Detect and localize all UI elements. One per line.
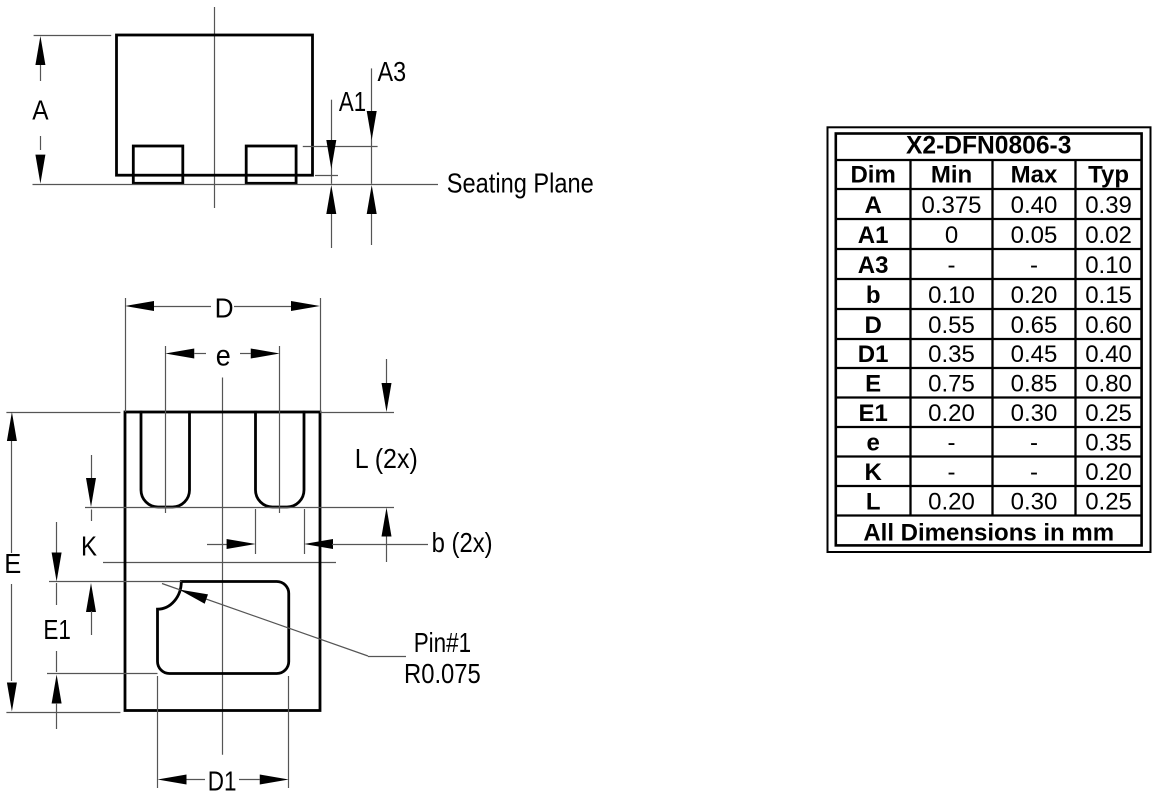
dimension D: dimension line with arrows <box>125 301 320 311</box>
table: row b <box>866 282 1132 309</box>
table: row D1 <box>858 341 1132 368</box>
dimension A1: label A1 <box>339 86 366 117</box>
svg-text:e: e <box>216 340 231 373</box>
body bottom extension line (A1 reference) <box>315 175 338 177</box>
svg-text:L (2x): L (2x) <box>355 443 418 474</box>
bottom view: vertical centerline <box>222 378 224 755</box>
dimension K: dimension line with arrows <box>86 455 96 635</box>
svg-text:0.35: 0.35 <box>928 341 975 368</box>
svg-text:0.40: 0.40 <box>1085 341 1132 368</box>
svg-text:b (2x): b (2x) <box>432 527 493 558</box>
svg-text:0.45: 0.45 <box>1011 341 1058 368</box>
dimension b: label b (2x) <box>432 527 493 558</box>
bottom view: package body outline <box>125 412 320 711</box>
svg-text:A: A <box>32 95 49 126</box>
table: row separator lines <box>836 160 1142 516</box>
bottom view: exposed pad with pin-1 chamfer notch <box>158 582 289 674</box>
svg-text:Min: Min <box>931 162 972 189</box>
svg-text:E: E <box>4 548 21 579</box>
table: title X2-DFN0806-3 <box>906 133 1071 160</box>
svg-text:0.40: 0.40 <box>1011 192 1058 219</box>
svg-text:0.10: 0.10 <box>928 282 975 309</box>
dimension D1: right extension line <box>288 676 290 788</box>
table: row A1 <box>858 222 1132 249</box>
svg-text:D: D <box>864 312 881 339</box>
dimension b: left extension line (slot edge) <box>255 509 257 554</box>
table: row K <box>864 459 1131 486</box>
dimension D1: label D1 <box>208 766 237 797</box>
svg-text:0.375: 0.375 <box>921 192 981 219</box>
svg-text:A: A <box>864 192 881 219</box>
svg-text:D: D <box>215 292 234 323</box>
svg-text:0.20: 0.20 <box>1085 459 1132 486</box>
svg-text:Typ: Typ <box>1088 162 1129 189</box>
svg-text:D1: D1 <box>858 341 889 368</box>
side view: vertical centerline <box>214 7 216 208</box>
dimension D1: dimension line with arrows <box>158 775 289 785</box>
svg-text:0.80: 0.80 <box>1085 371 1132 398</box>
bottom view: horizontal centerline <box>103 562 336 564</box>
table: footer All Dimensions in mm <box>863 519 1114 546</box>
svg-text:K: K <box>864 459 882 486</box>
svg-text:E1: E1 <box>858 400 887 427</box>
svg-text:A3: A3 <box>378 56 407 87</box>
svg-text:0.15: 0.15 <box>1085 282 1132 309</box>
exposed pad top extension line <box>49 581 182 583</box>
svg-text:0.20: 0.20 <box>1011 282 1058 309</box>
svg-text:Max: Max <box>1011 162 1058 189</box>
dimension D: left extension line <box>125 298 127 412</box>
side view: left terminal pad <box>133 146 183 183</box>
dimension e: right extension line (slot 2 centerline) <box>279 346 281 513</box>
svg-text:0.30: 0.30 <box>1011 400 1058 427</box>
svg-text:0.25: 0.25 <box>1085 400 1132 427</box>
svg-text:0.05: 0.05 <box>1011 222 1058 249</box>
svg-text:0.25: 0.25 <box>1085 489 1132 516</box>
svg-text:e: e <box>866 430 879 457</box>
body top extension line right (for L) <box>320 412 394 414</box>
dimension A: top extension line <box>34 35 112 37</box>
body bottom extension line (for E) <box>6 712 120 714</box>
svg-text:0.30: 0.30 <box>1011 489 1058 516</box>
table: column separator lines <box>911 160 1076 516</box>
svg-text:0.85: 0.85 <box>1011 371 1058 398</box>
dimension L: label L (2x) <box>355 443 418 474</box>
svg-text:All Dimensions in mm: All Dimensions in mm <box>863 519 1114 546</box>
svg-text:D1: D1 <box>208 766 237 797</box>
side view: right terminal pad <box>246 146 296 183</box>
dimension E: dimension line with arrows <box>7 412 17 712</box>
side view: package body outline <box>117 35 313 175</box>
label R0.075 <box>404 658 481 689</box>
dimension A3: label A3 <box>378 56 407 87</box>
svg-text:0.75: 0.75 <box>928 371 975 398</box>
dimension A: dimension line with arrows <box>35 36 45 184</box>
svg-text:R0.075: R0.075 <box>404 658 481 689</box>
dimension E1: label E1 <box>43 614 71 645</box>
svg-text:0.60: 0.60 <box>1085 312 1132 339</box>
table: row E <box>865 371 1132 398</box>
table: header row Dim Min Max Typ <box>850 162 1129 189</box>
svg-text:L: L <box>866 489 881 516</box>
dimension A3: dimension line with arrows <box>367 68 377 245</box>
svg-text:A1: A1 <box>858 222 889 249</box>
table: row A3 <box>858 252 1132 279</box>
label Pin#1 <box>414 627 471 658</box>
svg-text:X2-DFN0806-3: X2-DFN0806-3 <box>906 133 1071 160</box>
label Seating Plane <box>447 167 594 198</box>
dimension b: right extension line (slot edge) <box>304 509 306 554</box>
pin 1 leader arrowhead <box>179 590 208 604</box>
svg-text:0.39: 0.39 <box>1085 192 1132 219</box>
dimension e: left extension line (slot 1 centerline) <box>165 346 167 513</box>
seating plane line <box>33 184 439 186</box>
svg-text:-: - <box>1030 459 1038 486</box>
svg-text:0.20: 0.20 <box>928 489 975 516</box>
svg-text:Seating Plane: Seating Plane <box>447 167 594 198</box>
svg-text:0: 0 <box>945 222 958 249</box>
svg-text:0.35: 0.35 <box>1085 430 1132 457</box>
pad top extension line (A3 reference) <box>303 146 378 148</box>
body top extension line left (for E) <box>6 412 120 414</box>
dimension A1: dimension line with arrows <box>326 100 336 248</box>
svg-text:Dim: Dim <box>850 162 895 189</box>
svg-text:K: K <box>81 531 98 562</box>
table: row e <box>866 430 1131 457</box>
svg-text:A3: A3 <box>858 252 889 279</box>
svg-text:-: - <box>948 252 956 279</box>
dimension D: right extension line <box>320 298 322 412</box>
dimension E: label E <box>4 548 21 579</box>
svg-text:E1: E1 <box>43 614 71 645</box>
svg-text:0.65: 0.65 <box>1011 312 1058 339</box>
table: row L <box>866 489 1132 516</box>
terminal end extension line (slot bottoms) <box>85 507 394 509</box>
svg-text:-: - <box>948 430 956 457</box>
dimension K: label K <box>81 531 98 562</box>
table: row D <box>864 312 1131 339</box>
exposed pad bottom extension line <box>47 673 158 675</box>
dimension A: label A <box>32 95 49 126</box>
dimension L: dimension line with arrows <box>382 359 392 562</box>
svg-text:0.55: 0.55 <box>928 312 975 339</box>
svg-text:Pin#1: Pin#1 <box>414 627 471 658</box>
svg-text:0.20: 0.20 <box>928 400 975 427</box>
table: outer border frame <box>828 127 1151 552</box>
svg-text:b: b <box>866 282 881 309</box>
pin 1 leader line <box>162 584 406 657</box>
dimension D: label D <box>215 292 234 323</box>
svg-text:-: - <box>948 459 956 486</box>
svg-text:E: E <box>865 371 881 398</box>
table: row A <box>864 192 1131 219</box>
dimension b: dimension line with arrows <box>207 539 428 549</box>
table: inner border frame <box>836 134 1142 546</box>
svg-text:0.10: 0.10 <box>1085 252 1132 279</box>
dimension E1: dimension line with arrows <box>52 522 62 729</box>
svg-text:A1: A1 <box>339 86 366 117</box>
dimension e: dimension line with arrows <box>165 349 280 359</box>
bottom view: left terminal slot (pin 1) <box>141 411 190 507</box>
dimension D1: left extension line <box>157 676 159 788</box>
svg-text:0.02: 0.02 <box>1085 222 1132 249</box>
dimension e: label e <box>216 340 231 373</box>
bottom view: right terminal slot (pin 2) <box>256 411 305 507</box>
svg-text:-: - <box>1030 430 1038 457</box>
table: row E1 <box>858 400 1131 427</box>
svg-text:-: - <box>1030 252 1038 279</box>
